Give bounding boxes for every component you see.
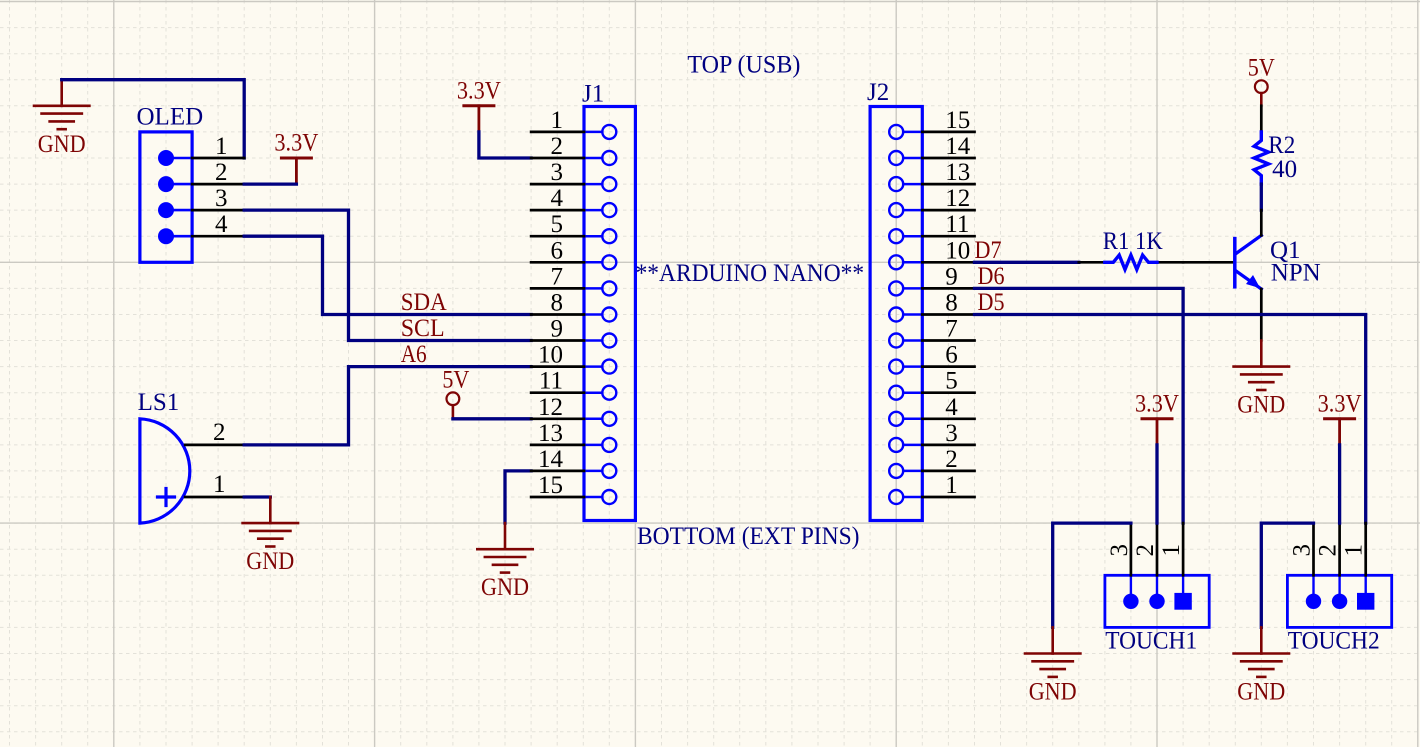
svg-text:GND: GND <box>38 131 86 158</box>
svg-text:BOTTOM (EXT PINS): BOTTOM (EXT PINS) <box>637 523 860 550</box>
svg-text:3.3V: 3.3V <box>457 77 501 104</box>
svg-text:J2: J2 <box>867 79 889 106</box>
J2 pin 12 <box>922 185 974 212</box>
ground GND (TOUCH2) <box>1234 627 1289 705</box>
J2 pin 14 <box>922 133 974 160</box>
svg-text:1: 1 <box>1158 544 1185 557</box>
svg-text:7: 7 <box>945 316 958 343</box>
svg-text:3: 3 <box>945 420 958 447</box>
connector TOUCH1 (3-pin) <box>1105 575 1209 654</box>
net label SCL <box>401 315 445 342</box>
wire J2 pin 8 (D5) to TOUCH2 pin 1 <box>975 315 1366 524</box>
svg-text:4: 4 <box>945 394 958 421</box>
power 3.3V (OLED pin 2) <box>274 130 318 185</box>
LS1 pin 2 <box>185 419 244 446</box>
wire OLED pin 3 to J1 pin 9 (SCL net) <box>244 210 531 340</box>
J1 pin 9 <box>531 316 584 343</box>
svg-text:SCL: SCL <box>401 315 445 342</box>
J2 pin 4 <box>922 394 974 421</box>
text BOTTOM (EXT PINS) <box>637 523 860 550</box>
J1 pin 12 <box>531 394 584 421</box>
OLED pin 4 <box>192 211 244 238</box>
net label D7 <box>975 237 1002 264</box>
wire LS1 pin 2 to J1 pin 10 (A6 net) <box>244 367 531 445</box>
svg-text:J1: J1 <box>582 81 604 108</box>
svg-text:GND: GND <box>246 548 294 575</box>
J2 pin 9 <box>922 263 974 290</box>
svg-text:1: 1 <box>1341 544 1368 557</box>
svg-text:5V: 5V <box>442 366 469 393</box>
svg-text:11: 11 <box>945 211 969 238</box>
J1 pin 10 <box>531 342 584 369</box>
svg-text:40: 40 <box>1272 156 1297 183</box>
text **ARDUINO NANO** <box>636 260 865 287</box>
LS1 pin 1 <box>185 471 244 498</box>
J1 pin 4 <box>531 185 584 212</box>
ground GND (LS1) <box>243 497 298 575</box>
OLED pin 2 <box>192 159 244 186</box>
J2 pin 15 <box>922 107 974 134</box>
ground GND (J1 pin 14) <box>477 523 532 601</box>
wire TOUCH1 pin 3 to ground <box>1053 523 1131 627</box>
wire J2 pin 10 (D7) to R1 <box>975 261 1079 264</box>
J2 pin 8 <box>922 290 974 317</box>
J2 pin 7 <box>922 316 974 343</box>
svg-text:3: 3 <box>1289 544 1316 557</box>
svg-text:2: 2 <box>1315 544 1342 557</box>
power 5V (J1 pin 12) <box>442 366 469 418</box>
TOUCH1 pin 3 <box>1106 523 1133 575</box>
OLED pin 3 <box>192 185 244 212</box>
svg-text:10: 10 <box>538 342 563 369</box>
wire J1 pin 14 to ground <box>505 471 531 523</box>
svg-text:GND: GND <box>1237 679 1285 706</box>
svg-text:12: 12 <box>538 394 563 421</box>
wire Q1 emitter to ground <box>1260 289 1263 341</box>
svg-text:R2: R2 <box>1268 132 1295 159</box>
svg-text:**ARDUINO NANO**: **ARDUINO NANO** <box>636 260 865 287</box>
J1 pin 2 <box>531 133 584 160</box>
svg-text:GND: GND <box>481 574 529 601</box>
wire R1 to Q1 base <box>1183 261 1235 264</box>
wire 3.3V to TOUCH1 pin 2 <box>1155 445 1158 523</box>
wire 5V to J1 pin 12 <box>453 417 531 420</box>
TOUCH2 pin 3 <box>1289 523 1316 575</box>
J1 pin 7 <box>531 263 584 290</box>
svg-text:GND: GND <box>1237 392 1285 419</box>
svg-text:D7: D7 <box>975 237 1002 264</box>
J2 pin 2 <box>922 446 974 473</box>
svg-text:6: 6 <box>945 342 958 369</box>
svg-text:LS1: LS1 <box>138 389 180 416</box>
text TOP (USB) <box>687 51 800 78</box>
net label D5 <box>978 289 1005 316</box>
svg-text:TOUCH2: TOUCH2 <box>1288 628 1380 655</box>
OLED pin 1 <box>192 133 244 160</box>
svg-text:3.3V: 3.3V <box>1135 390 1179 417</box>
J1 pin 6 <box>531 237 584 264</box>
wire OLED pin 2 to 3.3V <box>244 182 296 185</box>
svg-text:A6: A6 <box>401 341 427 368</box>
wire 3.3V to TOUCH2 pin 2 <box>1338 445 1341 523</box>
ground GND (top-left power symbol) <box>34 80 89 158</box>
TOUCH2 pin 1 <box>1341 523 1368 575</box>
svg-text:TOUCH1: TOUCH1 <box>1105 628 1197 655</box>
J2 pin 11 <box>922 211 974 238</box>
connector TOUCH2 (3-pin) <box>1287 575 1391 654</box>
resistor R2 40 <box>1254 106 1297 184</box>
power 3.3V (TOUCH2 pin 2) <box>1318 390 1362 445</box>
svg-text:R1 1K: R1 1K <box>1103 228 1163 255</box>
svg-text:9: 9 <box>551 316 564 343</box>
ground GND (TOUCH1) <box>1025 627 1080 705</box>
svg-text:6: 6 <box>551 237 564 264</box>
svg-text:3: 3 <box>215 185 228 212</box>
transistor Q1 NPN <box>1235 235 1321 289</box>
J2 pin 6 <box>922 342 974 369</box>
svg-text:3.3V: 3.3V <box>274 130 318 157</box>
svg-text:5V: 5V <box>1248 54 1275 81</box>
svg-text:5: 5 <box>945 368 958 395</box>
power 3.3V (TOUCH1 pin 2) <box>1135 390 1179 445</box>
wire J2 pin 9 (D6) to TOUCH1 pin 1 <box>975 288 1184 523</box>
J1 pin 1 <box>531 107 584 134</box>
J2 pin 3 <box>922 420 974 447</box>
svg-text:5: 5 <box>551 211 564 238</box>
speaker LS1 <box>138 389 190 523</box>
J1 pin 13 <box>531 420 584 447</box>
TOUCH1 pin 1 <box>1158 523 1185 575</box>
svg-text:12: 12 <box>945 185 970 212</box>
svg-text:2: 2 <box>213 419 226 446</box>
svg-text:8: 8 <box>551 290 564 317</box>
svg-text:D5: D5 <box>978 289 1005 316</box>
svg-text:1: 1 <box>945 472 958 499</box>
J2 pin 13 <box>922 159 974 186</box>
svg-text:14: 14 <box>538 446 564 473</box>
wire TOUCH2 pin 3 to ground <box>1261 523 1313 627</box>
svg-text:7: 7 <box>551 263 564 290</box>
wire OLED pin 4 to J1 pin 8 (SDA net) <box>244 236 531 314</box>
svg-text:15: 15 <box>945 107 970 134</box>
svg-text:1: 1 <box>551 107 564 134</box>
J2 pin 10 <box>922 237 974 264</box>
svg-text:NPN: NPN <box>1271 260 1321 287</box>
svg-text:1: 1 <box>213 471 226 498</box>
svg-text:3: 3 <box>1106 544 1133 557</box>
TOUCH1 pin 2 <box>1132 523 1159 575</box>
J1 pin 15 <box>531 472 584 499</box>
net label D6 <box>978 263 1005 290</box>
wire from GND to OLED pin 1 <box>62 80 245 158</box>
svg-text:11: 11 <box>539 368 563 395</box>
power 3.3V (J1 pin 2) <box>457 77 501 132</box>
svg-text:14: 14 <box>945 133 971 160</box>
svg-text:3.3V: 3.3V <box>1318 390 1362 417</box>
resistor R1 1K <box>1079 228 1183 270</box>
svg-text:4: 4 <box>215 211 228 238</box>
J1 pin 3 <box>531 159 584 186</box>
svg-text:2: 2 <box>945 446 958 473</box>
connector J2 (Arduino Nano bottom/ext side, 15-pin) <box>867 79 922 521</box>
net label SDA <box>401 289 447 316</box>
wire 3.3V to J1 pin 2 <box>479 132 531 158</box>
J2 pin 5 <box>922 368 974 395</box>
svg-text:2: 2 <box>215 159 228 186</box>
svg-text:2: 2 <box>1132 544 1159 557</box>
svg-text:4: 4 <box>551 185 564 212</box>
svg-text:TOP (USB): TOP (USB) <box>687 51 800 78</box>
J2 pin 1 <box>922 472 974 499</box>
TOUCH2 pin 2 <box>1315 523 1342 575</box>
svg-text:13: 13 <box>945 159 970 186</box>
svg-text:10: 10 <box>945 237 970 264</box>
J1 pin 5 <box>531 211 584 238</box>
svg-text:3: 3 <box>551 159 564 186</box>
wire R2 to Q1 collector <box>1260 184 1263 235</box>
svg-text:2: 2 <box>551 133 564 160</box>
svg-text:15: 15 <box>538 472 563 499</box>
svg-text:1: 1 <box>215 133 228 160</box>
svg-text:SDA: SDA <box>401 289 447 316</box>
net label A6 <box>401 341 427 368</box>
svg-text:GND: GND <box>1029 679 1077 706</box>
J1 pin 14 <box>531 446 584 473</box>
svg-text:9: 9 <box>945 263 958 290</box>
svg-text:D6: D6 <box>978 263 1005 290</box>
svg-text:OLED: OLED <box>137 104 204 131</box>
svg-text:8: 8 <box>945 290 958 317</box>
ground GND (Q1 emitter) <box>1234 341 1289 419</box>
J1 pin 11 <box>531 368 584 395</box>
power 5V (R2 top) <box>1248 54 1275 106</box>
svg-text:13: 13 <box>538 420 563 447</box>
J1 pin 8 <box>531 290 584 317</box>
connector OLED (4-pin header) <box>137 104 204 263</box>
connector J1 (Arduino Nano top/USB side, 15-pin) <box>582 81 635 521</box>
wire LS1 pin 1 to ground <box>244 495 270 498</box>
